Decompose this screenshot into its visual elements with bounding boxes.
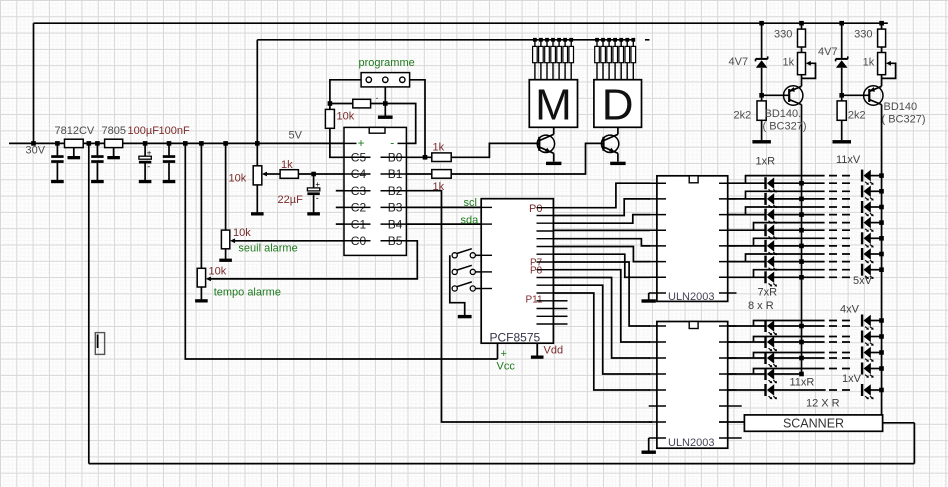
connector SCANNER box — [744, 415, 882, 431]
label 1xV — [842, 373, 862, 385]
zener diode 4V7 — [836, 23, 848, 101]
pin ULN2 left 6 — [649, 405, 666, 407]
node bus junction D2 — [601, 38, 605, 42]
wire ULN2 out 4 to LED — [728, 373, 766, 375]
wire Vcc stub — [497, 343, 499, 359]
svg-text:SCANNER: SCANNER — [783, 416, 844, 430]
pin interior stub P3 — [537, 230, 554, 232]
LED right col row5 — [861, 232, 874, 247]
wire LED2 anode to bus — [774, 198, 825, 200]
node bus junction M5 — [557, 38, 561, 42]
svg-text:1k: 1k — [863, 57, 875, 69]
label P11 — [526, 295, 543, 306]
label 2k2 — [734, 110, 752, 122]
label 10k contrast — [229, 173, 247, 185]
label 10k seuil — [233, 227, 251, 239]
pin label B4 — [388, 217, 403, 231]
node rail junction pot — [255, 141, 260, 146]
label sda — [461, 215, 480, 227]
wire branch dashed row3 — [829, 206, 852, 208]
wire pin2-junction to minus pin — [385, 104, 415, 144]
pin interior stub PCF left — [481, 254, 492, 256]
resistor 10k pullup — [325, 109, 334, 128]
potentiometer 10k seuil — [221, 230, 229, 249]
pin ULN2 right interior 3 — [719, 357, 737, 359]
label ULN2003 upper — [668, 291, 714, 303]
pin label C5 — [351, 151, 367, 165]
resistor 2k2 — [837, 101, 846, 120]
ground Vdd — [531, 356, 544, 359]
LED left col g2 row3 — [764, 352, 777, 367]
label Vcc + — [501, 348, 507, 360]
pin interior stub P5 — [537, 246, 554, 248]
svg-text:1xR: 1xR — [756, 156, 776, 168]
svg-text:1k: 1k — [433, 142, 445, 154]
pin interior stub P4 — [537, 238, 554, 240]
svg-text:sda: sda — [461, 215, 480, 227]
wire ULN1 out 5 to LED — [728, 245, 766, 247]
pin ULN1 right 2 — [719, 198, 737, 200]
label programme — [359, 57, 415, 69]
label Vcc — [497, 361, 516, 373]
LED left col row3 — [764, 209, 777, 224]
LED left col row5 — [764, 240, 777, 255]
label resistor dash — [376, 93, 379, 103]
label - pin — [390, 136, 394, 150]
label PCF8575 — [490, 331, 541, 345]
wire P2 to ULN1 — [553, 215, 650, 224]
pot 1k wiper arrow — [806, 61, 811, 66]
label 2k2 — [848, 110, 866, 122]
svg-text:BD140.: BD140. — [765, 108, 802, 120]
switch S3 — [452, 282, 475, 291]
svg-text:programme: programme — [359, 57, 415, 69]
node bus junction M1 — [533, 38, 537, 42]
node bus2 junction g2 row4 — [879, 366, 884, 371]
label 4V7 — [818, 46, 838, 58]
wire across pullups — [330, 103, 385, 105]
label P0 — [529, 203, 542, 215]
pin ULN1 left 8 — [649, 292, 666, 294]
node bus junction M4 — [551, 38, 555, 42]
node bus junction M7 — [569, 38, 573, 42]
node junction 22uF — [311, 172, 316, 177]
wire 10k to C5 — [330, 128, 344, 157]
pin ULN2 left 3 — [649, 357, 666, 359]
wire LED right to bus2 row5 — [871, 237, 882, 239]
pin ULN1 right 1 — [719, 182, 737, 184]
pin ULN2 left 4 — [649, 373, 666, 375]
pin interior stub P11 — [537, 292, 554, 294]
pin stub P12 — [553, 300, 567, 302]
svg-text:4xV: 4xV — [840, 304, 860, 316]
pin interior stub P2 — [537, 222, 554, 224]
svg-text:4V7: 4V7 — [729, 56, 749, 68]
resistor segment D1 — [595, 40, 600, 80]
node rail-top junction — [31, 141, 36, 146]
transistor BD140 — [762, 86, 803, 105]
wire 30V input rail — [9, 142, 344, 144]
label 4V7 — [729, 56, 749, 68]
resistor 2k2 — [757, 101, 766, 120]
wire wiper loop — [882, 63, 896, 78]
resistor 1k B1 — [432, 170, 451, 179]
wire ULN2 ground pin — [648, 438, 650, 451]
label + pin — [358, 136, 365, 150]
wire 2k2 to ground — [761, 120, 763, 140]
pin label C3 — [351, 184, 367, 198]
pin interior stub P7 — [537, 261, 554, 263]
ground pot contrast — [251, 212, 264, 215]
pin interior stub P9 — [537, 277, 554, 279]
svg-text:330: 330 — [854, 29, 872, 41]
node top junction zener — [759, 21, 764, 26]
LED left col row4 — [764, 224, 777, 239]
potentiometer 10k contrast — [253, 166, 262, 185]
wire wiper to 1k — [267, 173, 281, 175]
wire branch row7 — [754, 270, 825, 278]
label 330 — [774, 29, 792, 41]
wire dashed tail row3 — [829, 214, 852, 216]
wire S3 to PCF — [475, 288, 481, 290]
wire P3 to ULN1 pin4 — [553, 229, 650, 231]
wire ULN1 ground pin — [648, 293, 650, 300]
node bus junction D6 — [625, 38, 629, 42]
pin interior stub B — [381, 223, 407, 225]
label 4xV — [840, 304, 860, 316]
wire bus1 anode column — [801, 105, 803, 375]
ground switches — [458, 315, 472, 318]
ground 7805 — [107, 156, 120, 159]
svg-text:100µF: 100µF — [128, 125, 160, 137]
wire P9 to ULN2 — [553, 278, 650, 359]
node junction pullup top — [328, 101, 333, 106]
wire B0 resistor to M transistor — [451, 143, 537, 157]
pin interior stub minus — [398, 142, 407, 144]
pin interior stub PCF left — [481, 271, 492, 273]
wire pot bottom — [256, 185, 258, 213]
svg-text:7xR: 7xR — [758, 287, 778, 299]
pin interior stub B — [381, 240, 407, 242]
label 7812CV — [55, 125, 95, 137]
node bus2 junction row5 — [879, 236, 884, 241]
label 100nF — [159, 125, 190, 137]
resistor segment D7 — [631, 40, 636, 80]
svg-text:5V: 5V — [289, 130, 303, 142]
wire LED anode to bus g2 row4 — [774, 373, 802, 375]
wire branch row3 — [746, 207, 825, 215]
label 10k tempo — [209, 266, 227, 278]
connector spare symbol — [95, 333, 104, 355]
svg-text:1xV: 1xV — [842, 373, 862, 385]
pin label C2 — [351, 201, 367, 215]
pot wiper arrow — [262, 172, 267, 177]
svg-text:1k: 1k — [783, 57, 795, 69]
wire ULN1 out 7 to LED — [728, 276, 766, 278]
wire wiper loop — [802, 63, 816, 78]
node rail junction Vcc feed — [183, 141, 188, 146]
node top junction 330 — [879, 21, 884, 26]
node bus1 junction row7 — [799, 275, 804, 280]
resistor segment D3 — [607, 40, 612, 80]
resistor 1k B0 — [432, 153, 451, 162]
wire bus2 anode column — [881, 105, 883, 415]
capacitor 22uF — [307, 174, 320, 212]
resistor segment M6 — [563, 40, 568, 80]
wire P10 to ULN2 — [553, 285, 650, 374]
pin stub ULN2 right 6 — [719, 405, 742, 407]
wire ULN1 out 6 to LED — [728, 261, 766, 263]
svg-text:Vdd: Vdd — [544, 345, 564, 357]
svg-text:seuil alarme: seuil alarme — [238, 243, 297, 255]
svg-text:P8: P8 — [530, 266, 543, 277]
label ULN2003 lower — [668, 437, 714, 449]
svg-text:tempo alarme: tempo alarme — [214, 287, 281, 299]
pin stub C left — [336, 206, 344, 208]
svg-text:10k: 10k — [209, 266, 227, 278]
svg-text:M: M — [535, 81, 572, 130]
label SCANNER — [783, 416, 844, 430]
svg-text:10k: 10k — [337, 111, 355, 123]
wire P5 to ULN1 — [553, 247, 650, 262]
pin interior stub C — [344, 190, 371, 192]
LED left col g2 row1 — [764, 320, 777, 335]
label 11xR — [790, 377, 815, 389]
resistor segment M7 — [569, 40, 574, 80]
display D — [594, 80, 642, 130]
pin label C1 — [351, 217, 367, 231]
wire 2k2 to ground — [841, 120, 843, 140]
pin ULN2 left 7 — [649, 421, 666, 423]
wire B1 resistor to D transistor — [451, 143, 601, 174]
pin ULN2 right interior 2 — [719, 341, 737, 343]
regulator 7812CV — [65, 139, 84, 147]
pin ULN2 right interior 5 — [719, 389, 737, 391]
wire 7812 ground tab — [73, 148, 75, 157]
pin ULN1 right 8 — [719, 292, 737, 294]
wire P6 to ULN1 — [553, 254, 650, 277]
capacitor C in2 — [91, 143, 103, 180]
wire branch dashed row4 — [829, 222, 852, 224]
zener diode 4V7 — [756, 23, 768, 101]
wire rail to tempo pot — [200, 143, 202, 268]
wire 7805 ground tab — [113, 148, 115, 157]
LED right col g2 row4 — [861, 363, 874, 378]
node bus1 junction row1 — [799, 181, 804, 186]
wire LED right to bus2 row6 — [871, 253, 882, 255]
wire LED5 anode to bus — [774, 245, 825, 247]
node bus2 junction row7 — [879, 267, 884, 272]
svg-text:7805: 7805 — [102, 125, 126, 137]
connector programme — [361, 73, 410, 87]
node rail junction seuil — [223, 141, 228, 146]
svg-text:10k: 10k — [233, 227, 251, 239]
svg-text:( BC327): ( BC327) — [882, 114, 926, 126]
label 30V — [26, 145, 46, 157]
node bus1 junction row4 — [799, 228, 804, 233]
wire branch dashed row6 — [829, 253, 852, 255]
wire 12xR row to dashes — [774, 389, 826, 391]
pin interior stub B — [381, 206, 407, 208]
pin label B3 — [388, 201, 403, 215]
label 1k B1 — [433, 181, 445, 193]
svg-text:-: - — [147, 161, 150, 171]
LED right col row3 — [861, 201, 874, 216]
node bus junction D1 — [595, 38, 599, 42]
wire dashed tail row7 — [829, 276, 852, 278]
label 10k pullup — [337, 111, 355, 123]
node bus junction D5 — [619, 38, 623, 42]
wire B4 sda — [406, 223, 481, 225]
node bus1 junction g2 row2 — [799, 340, 804, 345]
pin interior stub P15 — [537, 323, 554, 325]
svg-text:2k2: 2k2 — [848, 110, 866, 122]
wire 1xV to bus2 — [871, 389, 882, 391]
svg-text:P11: P11 — [526, 295, 543, 306]
node bus2 junction g2 row2 — [879, 334, 884, 339]
node bus2 junction row4 — [879, 220, 884, 225]
resistor segment M3 — [545, 40, 550, 80]
wire 1k to C4 — [298, 173, 344, 175]
svg-text:8 x R: 8 x R — [748, 300, 774, 312]
svg-text:ULN2003: ULN2003 — [668, 291, 714, 303]
wire ULN2 to scanner — [719, 421, 744, 423]
LED right col g2 row1 — [861, 315, 874, 330]
switch S1 — [452, 249, 475, 258]
node zener-base junction — [759, 93, 764, 98]
ground 100nF — [163, 180, 176, 183]
svg-text:10k: 10k — [229, 173, 247, 185]
pin interior stub B — [381, 173, 407, 175]
node bus junction M6 — [563, 38, 567, 42]
label 330 — [854, 29, 872, 41]
wire LED right to bus2 row3 — [871, 206, 882, 208]
wire rail to pot 10k — [256, 143, 258, 165]
node bus junction M2 — [539, 38, 543, 42]
label 1k pot — [783, 57, 795, 69]
node rail junction C in1 — [55, 141, 60, 146]
wire seuil to C0 — [235, 240, 344, 242]
wire branch dashed row5 — [829, 237, 852, 239]
wire LED right to bus2 row2 — [871, 190, 882, 192]
resistor segment M1 — [533, 40, 538, 80]
pin ULN2 left 2 — [649, 341, 666, 343]
wire 1k to transistor — [881, 75, 883, 87]
pin stub P15 — [553, 323, 567, 325]
pin stub C left — [336, 190, 344, 192]
pin ULN1 right 7 — [719, 276, 737, 278]
wire LED anode to bus g2 row2 — [774, 341, 825, 343]
wire vertical from rail to top wire — [33, 23, 35, 143]
pin interior stub P14 — [537, 315, 554, 317]
wire tempo bottom — [200, 287, 202, 299]
wire branch row4 — [754, 223, 825, 231]
wire ULN2 out 5 to LED — [728, 389, 766, 391]
ground C in2 — [91, 180, 104, 183]
wire branch row2 — [746, 191, 825, 199]
wire dashed tail g2 row2 — [829, 341, 852, 343]
wire LED anode to bus g2 row1 — [774, 325, 825, 327]
wire branch row1 — [746, 176, 825, 184]
svg-text:2k2: 2k2 — [734, 110, 752, 122]
wire P8 to ULN2 — [553, 270, 650, 342]
wire 5V riser — [256, 40, 258, 144]
ground ULN1 — [642, 299, 656, 302]
wire branch dashed row7 — [829, 269, 852, 271]
wire ULN1 out 1 to LED — [728, 182, 766, 184]
pin interior stub PCF left — [481, 288, 492, 290]
pin interior stub P1 — [537, 215, 554, 217]
wire bus end tick — [645, 39, 650, 41]
wire branch dashed g2 row3 — [829, 352, 852, 354]
pin interior stub P10 — [537, 284, 554, 286]
pin ULN1 left 4 — [649, 229, 666, 231]
wire programme pin3 to B0 node — [410, 80, 425, 158]
wire LED3 anode to bus — [774, 214, 825, 216]
pin ULN1 left 2 — [649, 198, 666, 200]
node top junction zener — [839, 21, 844, 26]
seuil wiper arrow — [230, 238, 235, 243]
LED right col row1 — [861, 170, 874, 185]
node rail junction left vertical — [87, 141, 92, 146]
IC ULN2003 upper — [657, 176, 728, 302]
pin interior stub C — [344, 156, 371, 158]
wire P4 to ULN1 — [553, 239, 650, 246]
node rail junction 100uF — [143, 141, 148, 146]
node bus2 junction row1 — [879, 173, 884, 178]
svg-text:P0: P0 — [529, 203, 542, 215]
wire LED7 anode to bus — [774, 276, 825, 278]
node bus junction D7 — [631, 38, 635, 42]
resistor segment M4 — [551, 40, 556, 80]
node bus2 junction 1xV — [879, 388, 884, 393]
ground 22uF — [307, 212, 320, 215]
node junction B0 — [423, 155, 428, 160]
wire dashed tail g2 row1 — [829, 325, 852, 327]
wire B3 scl — [406, 206, 481, 208]
wire LED right to bus2 row7 — [871, 269, 882, 271]
pot 1k wiper arrow — [886, 61, 891, 66]
LED left col row7 — [764, 271, 777, 286]
label 1k wiper — [281, 159, 293, 171]
wire ULN1 out 2 to LED — [728, 198, 766, 200]
wire LED right to bus2 g2 row2 — [871, 336, 882, 338]
wire left outer vertical — [88, 143, 90, 463]
pin interior stub PCF left — [481, 223, 492, 225]
svg-text:5xV: 5xV — [853, 275, 873, 287]
pin ULN2 left 5 — [649, 389, 666, 391]
resistor segment D2 — [601, 40, 606, 80]
pin ULN1 right 3 — [719, 214, 737, 216]
pin interior stub C — [344, 240, 371, 242]
ground programme pin2 — [378, 116, 393, 119]
wire LED anode to bus g2 row3 — [774, 357, 825, 359]
node junction pin2 — [383, 101, 388, 106]
wire branch g2 row3 — [754, 353, 825, 359]
ground tempo — [195, 299, 208, 302]
LED right col row6 — [861, 248, 874, 263]
wire dashed tail g2 row3 — [829, 357, 852, 359]
ground C in1 — [51, 180, 64, 183]
wire S2 to PCF — [475, 271, 481, 273]
node bus junction D4 — [613, 38, 617, 42]
label 7805 — [102, 125, 126, 137]
label BD140 — [884, 101, 918, 113]
node bus junction M3 — [545, 38, 549, 42]
display M — [529, 80, 577, 130]
wire 12xR dashed — [829, 389, 852, 391]
wire dashed tail row4 — [829, 229, 852, 231]
